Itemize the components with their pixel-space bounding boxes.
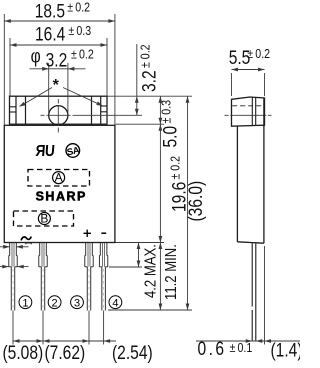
svg-text:18.5: 18.5 <box>35 0 65 22</box>
svg-text:(1.4): (1.4) <box>271 339 301 361</box>
svg-text:2: 2 <box>52 298 58 310</box>
svg-text:ЯU: ЯU <box>35 143 55 160</box>
svg-text:4.2 MAX.: 4.2 MAX. <box>142 244 159 298</box>
svg-text:16.4: 16.4 <box>35 23 66 45</box>
svg-text:4: 4 <box>112 298 118 310</box>
svg-text:0.6: 0.6 <box>198 338 227 360</box>
svg-text:11.2 MIN.: 11.2 MIN. <box>163 244 180 300</box>
svg-text:3: 3 <box>74 298 80 310</box>
svg-text:± 0.3: ± 0.3 <box>159 100 174 124</box>
svg-text:(36.0): (36.0) <box>185 181 207 222</box>
svg-text:(5.08): (5.08) <box>3 342 44 363</box>
svg-text:*: * <box>53 77 60 94</box>
svg-text:B: B <box>40 212 48 226</box>
svg-text:1: 1 <box>22 298 28 310</box>
svg-text:± 0.2: ± 0.2 <box>138 44 153 68</box>
svg-text:± 0.2: ± 0.2 <box>168 156 183 180</box>
svg-text:5.0: 5.0 <box>159 126 181 148</box>
svg-text:± 0.1: ± 0.1 <box>230 340 253 355</box>
svg-text:± 0.2: ± 0.2 <box>67 0 90 15</box>
svg-text:(7.62): (7.62) <box>45 342 86 363</box>
svg-text:A: A <box>55 171 63 185</box>
svg-text:± 0.2: ± 0.2 <box>247 46 270 61</box>
svg-text:SHARP: SHARP <box>36 190 87 204</box>
svg-text:± 0.2: ± 0.2 <box>71 46 94 61</box>
svg-text:3.2: 3.2 <box>46 49 68 71</box>
svg-text:φ: φ <box>31 45 41 67</box>
svg-text:± 0.3: ± 0.3 <box>68 23 91 38</box>
svg-text:(2.54): (2.54) <box>112 342 153 363</box>
svg-text:3.2: 3.2 <box>138 70 160 92</box>
